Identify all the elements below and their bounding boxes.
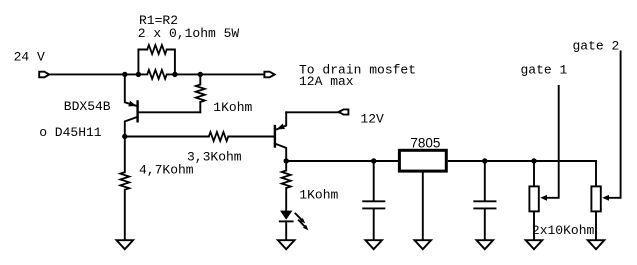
svg-text:2 x 0,1ohm 5W: 2 x 0,1ohm 5W xyxy=(138,26,240,41)
wire 3,3Kohm to Q2 base xyxy=(228,136,273,138)
resistor 4,7Kohm top lead xyxy=(124,137,126,173)
resistor 1Kohm base top lead xyxy=(199,74,201,84)
resistor 3,3Kohm zigzag xyxy=(209,132,229,141)
LED D1 cathode bar xyxy=(280,220,293,222)
transistor Q1 BDX54B emitter lead xyxy=(125,74,137,106)
resistor R1 top branch left stub xyxy=(138,50,147,75)
capacitor C1 top lead xyxy=(373,161,375,200)
svg-text:3,3Kohm: 3,3Kohm xyxy=(187,150,242,165)
resistor 4,7Kohm zigzag xyxy=(120,172,129,190)
transistor Q2 emitter lead xyxy=(277,112,286,129)
LED light arrow 2 xyxy=(299,220,306,227)
junction node Q1 collector xyxy=(122,134,127,139)
resistor 4,7Kohm bottom lead xyxy=(124,190,126,241)
wire collector node to 3,3Kohm xyxy=(125,136,209,138)
transistor Q2 D45H11 bar xyxy=(274,126,276,147)
potentiometer P2 bottom lead xyxy=(595,211,597,240)
capacitor C1 bottom lead xyxy=(373,209,375,240)
wire top rail left segment xyxy=(49,73,147,75)
ground under LED xyxy=(278,240,295,249)
output tag to drain mosfet xyxy=(264,72,274,78)
svg-text:o D45H11: o D45H11 xyxy=(39,125,102,140)
potentiometer P1 bottom lead xyxy=(533,211,535,240)
capacitor C2 bottom lead xyxy=(484,209,486,240)
wire output rail xyxy=(449,160,596,162)
potentiometer P2 top lead xyxy=(595,161,597,186)
LED light arrow 1 xyxy=(296,214,303,221)
resistor 1Kohm base bottom lead xyxy=(199,102,201,112)
ground under 7805 xyxy=(415,240,432,249)
wire lower rail to 7805 input xyxy=(286,160,398,162)
wire gate 2 to P2 wiper xyxy=(609,51,621,198)
junction node C1 xyxy=(371,158,376,163)
junction node rail-emitter xyxy=(122,72,127,77)
potentiometer P2 wiper arrow xyxy=(602,195,609,201)
svg-text:2x10Kohm: 2x10Kohm xyxy=(532,223,595,238)
transistor Q1 collector lead xyxy=(125,117,138,137)
potentiometer P1 body xyxy=(529,186,538,211)
ground under C2 xyxy=(477,240,494,249)
wire gate 1 to P1 wiper xyxy=(547,86,559,198)
svg-text:7805: 7805 xyxy=(410,136,440,151)
junction node Q2 collector xyxy=(284,158,289,163)
transistor Q2 collector lead xyxy=(275,144,286,161)
capacitor C2 plates xyxy=(474,201,495,208)
capacitor C2 top lead xyxy=(484,161,486,200)
ground under 4,7Kohm xyxy=(117,240,134,249)
tag 12V xyxy=(339,109,349,114)
junction node rail-R1 right xyxy=(172,72,177,77)
wire Q1 base xyxy=(139,111,201,113)
ground under C1 xyxy=(365,240,382,249)
resistor R1 zigzag xyxy=(147,45,167,54)
svg-text:4,7Kohm: 4,7Kohm xyxy=(139,163,194,178)
resistor R1 top branch right stub xyxy=(167,50,175,75)
svg-text:12A max: 12A max xyxy=(299,74,354,89)
capacitor C1 plates xyxy=(363,201,384,208)
resistor 1Kohm LED zigzag xyxy=(282,171,291,189)
ground under P1 xyxy=(526,240,543,249)
input tag 24V xyxy=(39,72,49,78)
LED bottom wire xyxy=(285,221,287,240)
svg-text:24 V: 24 V xyxy=(14,50,45,65)
wire top rail right segment xyxy=(167,73,265,75)
junction node P1 xyxy=(531,158,536,163)
regulator U1 7805 box xyxy=(399,150,446,171)
potentiometer P1 top lead xyxy=(533,161,535,186)
svg-text:12V: 12V xyxy=(360,112,384,127)
svg-text:gate 1: gate 1 xyxy=(521,62,568,77)
svg-text:gate 2: gate 2 xyxy=(573,39,620,54)
LED D1 triangle xyxy=(280,211,292,220)
wire emitter to 12V tag xyxy=(286,111,338,113)
ground under P2 xyxy=(588,240,605,249)
resistor 1Kohm base zigzag xyxy=(196,85,205,103)
resistor R2 on rail xyxy=(147,70,167,79)
svg-text:1Kohm: 1Kohm xyxy=(213,100,252,115)
junction node rail-1Kohm xyxy=(198,72,203,77)
resistor 1Kohm LED top lead xyxy=(285,161,287,171)
junction node rail-R1 left xyxy=(136,72,141,77)
potentiometer P1 wiper arrow xyxy=(540,195,547,201)
resistor 1Kohm LED bottom lead xyxy=(285,188,287,211)
regulator ground pin xyxy=(422,171,424,240)
svg-text:1Kohm: 1Kohm xyxy=(299,188,338,203)
svg-text:BDX54B: BDX54B xyxy=(64,99,111,114)
transistor Q1 emitter arrow xyxy=(128,101,137,107)
transistor Q2 emitter arrow xyxy=(276,124,285,130)
junction node C2 xyxy=(482,158,487,163)
potentiometer P2 body xyxy=(591,186,600,211)
transistor Q1 bar xyxy=(136,101,138,121)
